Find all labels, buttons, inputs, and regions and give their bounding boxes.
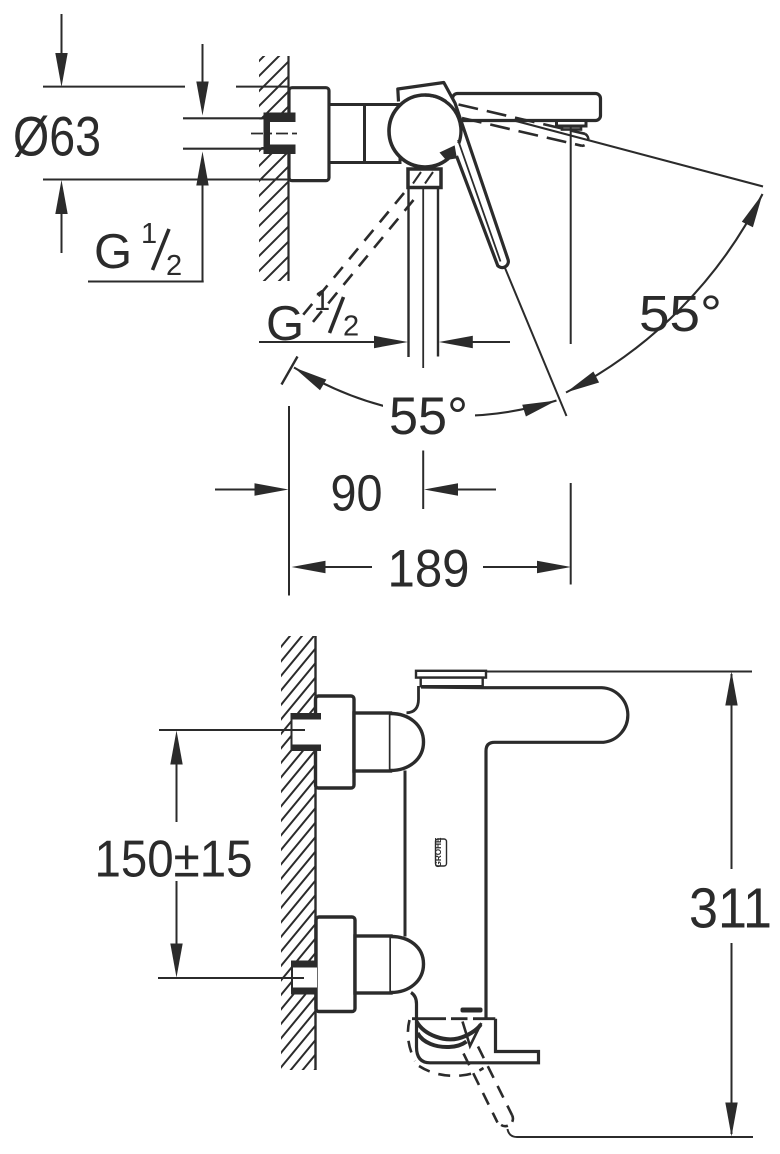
- spout end extension line upper: [570, 126, 572, 344]
- svg-text:311: 311: [689, 877, 772, 941]
- svg-text:Ø63: Ø63: [13, 105, 101, 168]
- body bottom outline and handle bracket (side view): [411, 993, 539, 1063]
- lever inner line (top view): [458, 140, 501, 262]
- union thread bottom bar (top view): [264, 145, 296, 155]
- spout end extension line lower: [570, 483, 572, 585]
- union thread white core (top view): [184, 120, 295, 148]
- dimension 150+-15: [159, 729, 305, 731]
- faucet body, spout loop and right edge (side view): [421, 687, 628, 1019]
- upper union nut (side view): [354, 713, 391, 771]
- outlet dome lower bowl (side view): [418, 1033, 467, 1047]
- wall line (side view): [314, 636, 316, 1070]
- dimension O63 up arrow: [55, 180, 67, 214]
- shower pipe centre line (top view): [422, 189, 424, 368]
- dimension G1/2 upper up arrow: [196, 152, 208, 186]
- wall line (top view): [287, 56, 289, 281]
- body left edge (side view): [404, 771, 407, 937]
- faucet body left neck (side view): [407, 686, 419, 713]
- pipe centre dash-dot line (top view): [251, 133, 297, 135]
- svg-text:G: G: [266, 297, 304, 351]
- upper union ball (side view): [391, 714, 424, 771]
- ball outline over lever: [425, 95, 461, 143]
- dimension G1/2 upper down arrow: [202, 44, 204, 83]
- dimension G1/2 lower (shower pipe): [259, 341, 375, 343]
- shower pipe right edge (top view): [437, 188, 439, 357]
- inlet pipe bottom edge (top view): [183, 148, 264, 150]
- svg-text:2: 2: [166, 250, 182, 282]
- lower union ball (side view): [391, 937, 424, 993]
- dashed lever raised position: [459, 105, 586, 134]
- 55-degree open-position ray: [450, 104, 763, 187]
- dashed handle swung position (side view): [408, 1020, 415, 1061]
- svg-text:90: 90: [331, 465, 383, 522]
- union thread top bar (top view): [264, 113, 296, 123]
- dimension 311: [486, 671, 752, 673]
- svg-text:55°: 55°: [389, 387, 468, 446]
- faucet body (top view): [329, 105, 400, 163]
- nut hatch tick 1: [413, 172, 421, 184]
- GROHE logo: [436, 839, 447, 866]
- black wedge at lever base: [440, 145, 463, 161]
- svg-text:GROHE: GROHE: [434, 837, 443, 868]
- wall flange escutcheon (top view): [289, 88, 329, 181]
- dimension 90: [288, 406, 290, 596]
- wall hatching (side view): [280, 602, 318, 1112]
- dimension O63 extension lines: [43, 86, 185, 88]
- outlet dome top line (side view): [412, 1017, 446, 1020]
- body divider line (top view): [363, 105, 366, 163]
- retaining nut below ball (top view): [408, 169, 441, 188]
- dimension O63 down arrow: [61, 14, 63, 55]
- G1/2 label underline: [88, 281, 204, 283]
- inlet pipe top edge (top view): [183, 117, 264, 119]
- cartridge ball housing (top view): [389, 95, 461, 167]
- lever handle (top view): [444, 83, 508, 266]
- lower union flange (side view): [316, 917, 355, 1012]
- outlet dome upper bowl (side view): [417, 1022, 481, 1040]
- svg-text:1: 1: [314, 285, 330, 317]
- svg-text:55°: 55°: [639, 285, 722, 342]
- lever swing 55-degree arc: [294, 368, 557, 416]
- 55-degree arc end tick: [282, 357, 298, 385]
- top cap plate (side view): [416, 671, 486, 678]
- lever extension line: [505, 268, 567, 416]
- dimension 189: [292, 561, 326, 573]
- svg-text:150±15: 150±15: [95, 831, 253, 889]
- lower union nut (side view): [355, 936, 391, 993]
- spout 55-degree arc: [566, 194, 763, 393]
- svg-text:G: G: [94, 225, 132, 279]
- nut hatch tick 2: [425, 172, 433, 184]
- spout (top view): [453, 94, 601, 121]
- upper union thread (side view): [292, 720, 321, 745]
- union thread left cap (top view): [264, 113, 271, 155]
- wall hatching (top view): [254, 26, 294, 321]
- dome left edge (side view): [415, 1022, 418, 1035]
- aerator under spout (top view): [557, 121, 587, 127]
- dome pointer V (side view): [463, 1022, 482, 1047]
- lower union thread (side view): [293, 968, 318, 988]
- svg-text:2: 2: [343, 311, 359, 343]
- stop limiter mark (side view): [461, 1008, 483, 1013]
- top cap base (side view): [421, 678, 483, 687]
- dashed lever swung-left position: [303, 193, 404, 315]
- upper union flange (side view): [316, 696, 355, 788]
- svg-text:1: 1: [141, 218, 157, 250]
- svg-text:189: 189: [388, 540, 470, 599]
- shower pipe left edge (top view): [407, 188, 409, 358]
